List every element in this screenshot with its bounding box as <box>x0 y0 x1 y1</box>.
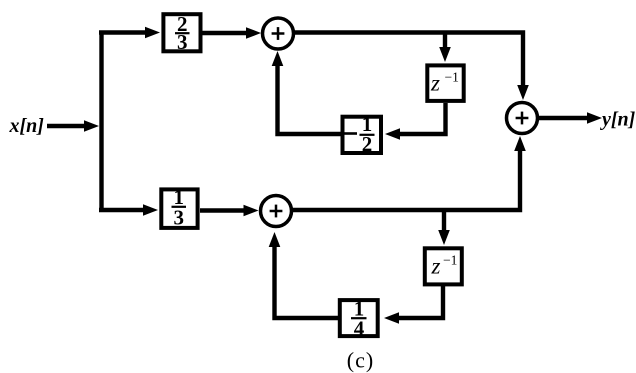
svg-text:2: 2 <box>362 132 373 156</box>
svg-text:z: z <box>431 254 441 279</box>
svg-text:3: 3 <box>177 30 188 54</box>
svg-text:(c): (c) <box>347 348 374 373</box>
svg-text:y[n]: y[n] <box>600 109 636 131</box>
svg-text:z: z <box>430 71 440 96</box>
svg-text:3: 3 <box>174 206 185 230</box>
svg-text:−1: −1 <box>443 253 457 268</box>
svg-text:−1: −1 <box>445 70 459 85</box>
svg-text:x[n]: x[n] <box>9 115 45 137</box>
svg-text:4: 4 <box>354 317 365 341</box>
